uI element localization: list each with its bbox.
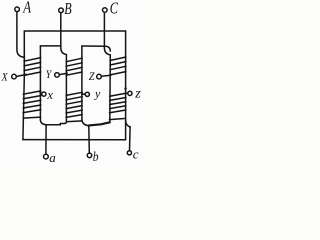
terminal Z <box>97 74 102 79</box>
winding W3/w3 right rail (limb 3) <box>125 31 127 140</box>
winding W3 left rail (limb 3) <box>109 55 112 122</box>
terminal X <box>12 74 17 79</box>
winding w1 secondary turns (limb 1 hatches) <box>23 91 41 118</box>
arrow on limb2 rail at y tap <box>81 92 84 95</box>
winding W1 primary left rail (limb 1) <box>23 55 25 77</box>
winding w2 secondary turns (limb 2 hatches) <box>66 92 82 122</box>
svg-text:B: B <box>64 0 71 18</box>
terminal y <box>85 92 89 96</box>
terminal b <box>87 153 92 158</box>
wire c riser <box>129 127 132 151</box>
wire w2 bottom hook into b riser <box>82 119 89 125</box>
svg-text:X: X <box>1 71 9 83</box>
wire b riser <box>88 126 91 153</box>
terminal Y <box>55 73 60 78</box>
svg-text:C: C <box>110 0 119 17</box>
svg-text:y: y <box>94 86 101 100</box>
terminal A <box>15 7 20 12</box>
arrow on limb3 rail above z tap <box>124 88 127 91</box>
wire w3 bottom hook into c riser <box>126 120 131 127</box>
winding W1/w1 right rail (limb 1) <box>39 46 41 120</box>
node b junction bus to w3 bottom <box>89 122 110 125</box>
terminal z <box>128 91 132 95</box>
wire jumper W1 right rail top to node B <box>40 45 60 47</box>
terminal c <box>127 151 131 155</box>
terminal a <box>44 154 49 159</box>
svg-text:Z: Z <box>89 71 95 83</box>
node a junction bus to w2 bottom <box>46 122 66 125</box>
svg-text:c: c <box>133 147 139 162</box>
wire jumper W2 right rail top across C lead to W3 left rail <box>82 46 110 51</box>
svg-text:b: b <box>93 149 99 164</box>
winding w1 secondary left rail (limb 1, leans left) <box>23 77 24 140</box>
terminal B <box>59 8 64 13</box>
arrow on limb1 rail at x tap <box>39 92 42 95</box>
wire A lead down into winding W1 top <box>17 12 24 58</box>
wire w1 bottom hook into a riser <box>40 120 46 125</box>
winding W3 primary turns (limb 3 hatches) <box>110 57 126 75</box>
svg-text:a: a <box>49 150 56 164</box>
winding w3 secondary turns (limb 3 hatches) <box>109 93 126 119</box>
svg-text:x: x <box>46 88 53 102</box>
wire bottom bus from w1 left rail corner to W3 right rail corner <box>23 139 126 141</box>
terminal x <box>42 92 46 96</box>
wire a riser <box>45 125 47 154</box>
wire C lead down into winding W3 top <box>104 12 110 55</box>
winding W2/w2 right rail (limb 2) <box>81 46 83 119</box>
wire y stub <box>82 93 85 95</box>
terminal C <box>103 8 108 13</box>
wire Y tap to W2 left rail <box>59 73 67 74</box>
svg-text:A: A <box>22 0 31 16</box>
svg-text:z: z <box>134 87 141 102</box>
winding W2 left rail (limb 2) <box>65 55 67 122</box>
wire Z tap to W3 left rail <box>101 75 111 76</box>
wire z stub <box>126 92 128 94</box>
wire X tap to W1 left rail <box>16 74 26 76</box>
winding W1 primary turns (limb 1 hatches) <box>24 58 41 76</box>
wire delta link: W1 left rail top, long top bus, down into W3 right rail <box>24 31 125 77</box>
winding W2 primary turns (limb 2 hatches) <box>66 58 82 75</box>
wire B lead down into winding W2 top <box>61 13 67 55</box>
wire x stub <box>40 93 41 95</box>
